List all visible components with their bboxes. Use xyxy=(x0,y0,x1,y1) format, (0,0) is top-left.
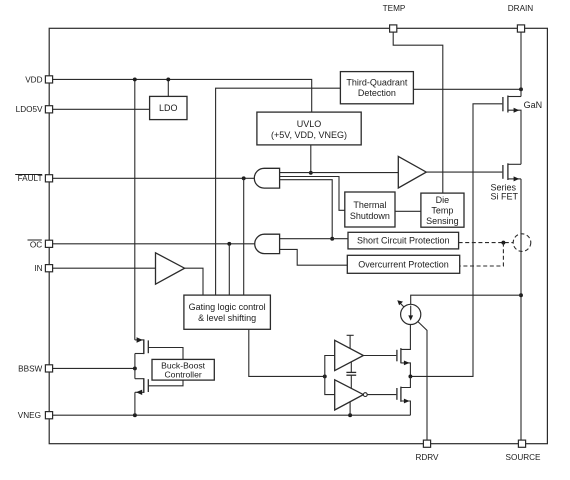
svg-text:LDO5V: LDO5V xyxy=(16,105,43,114)
pin BBSW xyxy=(45,365,52,372)
wire OC gate input 1 from short circuit protection xyxy=(280,238,348,240)
wire driver input bracket xyxy=(325,356,335,395)
dashed link OCP to junction xyxy=(460,243,504,266)
current source I1 xyxy=(397,300,421,324)
svg-text:Thermal: Thermal xyxy=(353,200,386,210)
svg-text:Gating logic control: Gating logic control xyxy=(189,302,266,312)
wire UVLO to fault AND gate xyxy=(310,145,312,173)
pin TEMP xyxy=(390,25,397,32)
svg-text:Temp: Temp xyxy=(431,206,453,216)
capacitor C1 xyxy=(346,362,356,388)
node BBSW junction xyxy=(133,366,137,370)
svg-text:FAULT: FAULT xyxy=(18,174,43,183)
transistor buck-boost lower FET (mirrored) xyxy=(135,378,183,395)
svg-text:Controller: Controller xyxy=(164,370,201,380)
wire TEMP to die temp sensing xyxy=(393,32,443,193)
wire fault gate input 1 to amp xyxy=(280,172,399,174)
pin DRAIN xyxy=(517,25,524,32)
svg-text:TEMP: TEMP xyxy=(383,4,406,13)
svg-text:UVLO: UVLO xyxy=(297,119,322,129)
node source-current junction xyxy=(519,293,523,297)
op-amp fault buffer xyxy=(398,156,426,188)
wire gate driver node to GaN gate xyxy=(410,104,502,377)
wire BBSW bracket xyxy=(134,354,136,379)
svg-text:DRAIN: DRAIN xyxy=(508,4,534,13)
pin OC xyxy=(45,240,52,247)
pin VNEG xyxy=(45,412,52,419)
node drain net junction xyxy=(519,87,523,91)
AND gate fault (mirrored) xyxy=(254,168,279,188)
third-quadrant detection box xyxy=(340,72,413,104)
node short-circuit tap junction xyxy=(330,237,334,241)
op-amp IN buffer xyxy=(156,253,185,284)
short circuit protection box xyxy=(348,232,459,249)
node dashed junction xyxy=(501,241,505,245)
pin RDRV xyxy=(423,440,430,447)
wire amp output to Si FET gate xyxy=(426,171,502,173)
svg-text:Short Circuit Protection: Short Circuit Protection xyxy=(357,236,450,246)
die temp sensing box xyxy=(421,193,464,227)
wire IN line xyxy=(53,267,155,269)
outer boundary xyxy=(49,28,547,443)
driver lower triangle (inverting) xyxy=(335,380,364,410)
node driver output junction xyxy=(408,374,412,378)
wire OC line xyxy=(53,243,255,245)
buck-boost controller box xyxy=(152,359,214,380)
wire gating logic output to drivers xyxy=(249,329,325,376)
UVLO box xyxy=(257,112,361,145)
pin FAULT xyxy=(45,175,52,182)
wire LDO5V to LDO xyxy=(53,108,150,110)
svg-text:Sensing: Sensing xyxy=(426,216,459,226)
wire VNEG rail xyxy=(53,414,410,416)
svg-text:VNEG: VNEG xyxy=(18,411,41,420)
AND gate OC (mirrored) xyxy=(255,234,280,253)
current sense circle (dashed) xyxy=(513,234,531,252)
svg-text:BBSW: BBSW xyxy=(18,364,42,373)
svg-text:RDRV: RDRV xyxy=(415,453,439,462)
svg-text:Third-Quadrant: Third-Quadrant xyxy=(346,77,408,87)
wire current source top line xyxy=(411,295,521,304)
wire fault gate input 3 to short-circuit line xyxy=(280,180,333,239)
svg-text:Die: Die xyxy=(436,195,450,205)
wire OC gate input 2 from overcurrent protection xyxy=(280,249,348,265)
svg-text:IN: IN xyxy=(34,264,42,273)
wire fault gate input 2 from thermal shutdown xyxy=(280,177,345,211)
transistor upper output FET xyxy=(397,325,411,377)
wire VDD left vertical to buck-boost FET xyxy=(134,79,136,340)
wire third-quadrant output to drain net xyxy=(413,88,521,90)
svg-text:Detection: Detection xyxy=(358,88,396,98)
supply tee xyxy=(347,334,354,336)
wire upper driver to upper FET gate xyxy=(363,355,396,357)
node FAULT tap junction xyxy=(242,176,246,180)
node VDD-left junction xyxy=(133,77,137,81)
node VDD-LDO junction xyxy=(166,77,170,81)
node UVLO junction xyxy=(309,171,313,175)
pin SOURCE xyxy=(518,440,525,447)
wire IN buffer output to gating logic xyxy=(185,268,203,295)
svg-text:SOURCE: SOURCE xyxy=(505,453,541,462)
wire FAULT line xyxy=(53,177,255,179)
svg-text:& level shifting: & level shifting xyxy=(198,313,256,323)
node VNEG driver junction xyxy=(348,413,352,417)
transistor lower output FET xyxy=(397,376,411,415)
svg-text:Overcurrent Protection: Overcurrent Protection xyxy=(358,260,449,270)
wire DRAIN down to GaN drain xyxy=(520,32,522,97)
svg-text:LDO: LDO xyxy=(159,103,178,113)
transistor buck-boost upper FET (mirrored) xyxy=(135,337,183,359)
svg-text:(+5V, VDD, VNEG): (+5V, VDD, VNEG) xyxy=(271,130,347,140)
thermal shutdown box xyxy=(345,192,395,227)
wire lower buck FET to VNEG xyxy=(134,392,136,415)
wire VDD rail xyxy=(53,79,312,112)
wire lower driver to VNEG xyxy=(349,402,351,415)
wire gating logic to third-quadrant detection xyxy=(216,88,341,295)
wire FAULT tap to gating logic xyxy=(243,178,245,295)
node VNEG buck junction xyxy=(133,413,137,417)
gating logic box xyxy=(184,295,271,329)
node driver input junction xyxy=(323,374,327,378)
wire BBSW line xyxy=(53,367,135,369)
wire OC tap to gating logic xyxy=(228,244,230,295)
pin LDO5V xyxy=(45,106,52,113)
LDO box xyxy=(150,96,187,119)
wire current source to RDRV xyxy=(418,322,427,444)
svg-text:Si FET: Si FET xyxy=(491,192,519,202)
pin IN xyxy=(45,265,52,272)
svg-text:GaN: GaN xyxy=(524,100,543,110)
driver upper triangle xyxy=(335,340,364,370)
wire VDD to LDO xyxy=(167,79,169,96)
node OC tap junction xyxy=(227,242,231,246)
transistor GaN xyxy=(503,96,521,165)
dashed link SCP to sense circle xyxy=(459,242,514,244)
svg-text:OC: OC xyxy=(30,241,42,250)
wire lower driver to lower FET gate xyxy=(367,394,396,396)
svg-text:Shutdown: Shutdown xyxy=(350,211,390,221)
wire source net down to SOURCE pin xyxy=(520,179,522,444)
svg-text:VDD: VDD xyxy=(25,75,42,84)
pin VDD xyxy=(45,76,52,83)
transistor series Si FET xyxy=(503,163,521,181)
wire thermal shutdown to die temp sensing xyxy=(395,210,421,212)
overcurrent protection box xyxy=(347,255,459,273)
